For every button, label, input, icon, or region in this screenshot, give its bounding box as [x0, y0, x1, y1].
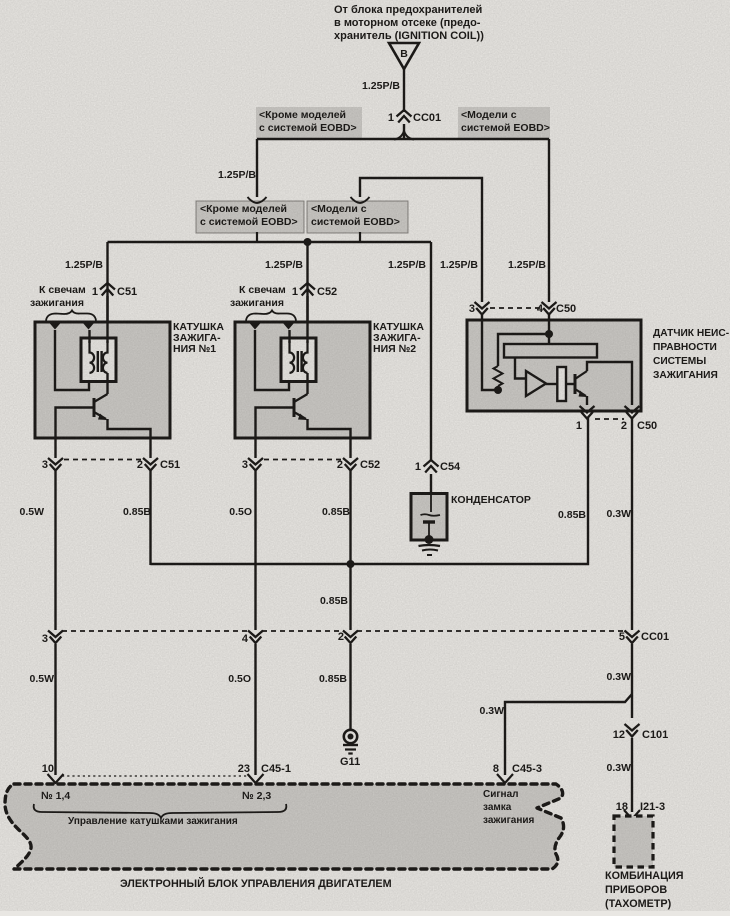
wire 0.85B coil1 ground [149, 471, 151, 565]
wire: bar to comparator input [515, 358, 526, 379]
wire: CC01 to split [403, 124, 405, 139]
wire: top split rail [257, 138, 549, 140]
transistor Q2 (in coil) [294, 394, 308, 420]
wire 0.5O coil2 base control [254, 471, 256, 630]
wire: emitter to pin2 exit coil1 [108, 419, 151, 438]
junction at C52 feed [304, 238, 312, 246]
connector C52 row (pins 3,2) [248, 458, 358, 471]
connector C52 pin 1 [292, 283, 337, 298]
fuse B [389, 43, 419, 69]
wire: pin4 to resistor top [498, 334, 549, 366]
wire: emitter to pin1 [586, 396, 588, 405]
wire: fuse to CC01 [403, 69, 405, 112]
connector C51 row (pins 3,2) [48, 458, 158, 471]
bar resistor in sensor [504, 344, 597, 358]
wire: rail to capacitor C54 [430, 242, 432, 460]
connector C51 pin 1 [92, 283, 137, 298]
wire 0.5O to ECU pin23 [254, 644, 256, 775]
connector CC01 pin 1 (top) [388, 110, 441, 124]
wire 0.5W to ECU pin10 [54, 644, 56, 775]
title: from fuse box note [334, 4, 484, 42]
wire: coil2 pin2 to row [349, 438, 351, 458]
wire behind right label box [359, 232, 361, 243]
ECU pin 23 entry [248, 774, 264, 783]
wire: rail to coil1 pin1 [106, 242, 108, 322]
wire: pin1 feed to primary coil2 [306, 296, 308, 343]
brace to spark arrows coil1 [46, 311, 96, 321]
ECU block (engine control unit) [5, 784, 564, 869]
wire: spark1 to secondary low coil2 [255, 330, 289, 390]
ignition coil #2 box [235, 322, 370, 438]
wire: spark2 to secondary high coil2 [288, 330, 290, 343]
connector C54 pin 1 [415, 460, 461, 473]
wire: spark2 to secondary high coil1 [88, 330, 90, 343]
wire: pin4 into sensor [548, 315, 550, 344]
wire: primary bottom to collector coil2 [306, 373, 308, 394]
connector C50 row 2 (pins 1,2) [580, 406, 640, 419]
transistor Q1 (in coil) [94, 394, 108, 420]
wire 0.5W coil1 base control [54, 471, 56, 630]
transistor in sensor [575, 371, 587, 397]
label box: except EOBD (row 2) [196, 201, 304, 233]
ECU pin 8 entry (C45-3) [497, 774, 513, 783]
wire 0.3W branch to C45-3 [505, 694, 632, 775]
transformer T1 [81, 338, 116, 382]
split fillets [394, 131, 414, 140]
spark output arrows coil2 [249, 323, 295, 330]
capacitor (noise condenser) box [411, 494, 447, 541]
wire: C54 to capacitor box [430, 474, 432, 494]
ground G11 [340, 730, 360, 768]
ground under capacitor [419, 545, 441, 555]
wire sensor pin2 down [631, 417, 633, 630]
wire 0.85B coil2 ground [349, 471, 351, 630]
wire: right branch down to jog [548, 139, 550, 302]
wire 0.3W main down to C101 [631, 644, 633, 718]
wire: resistor bottom to junction [497, 386, 499, 390]
wire: pin1 feed to primary coil1 [106, 296, 108, 343]
capacitor ground junction [425, 535, 434, 544]
connector C45-1 row [62, 775, 248, 777]
wire 0.85B to ground G11 [349, 644, 351, 730]
wire: emitter to pin2 exit coil2 [308, 419, 351, 438]
label box: EOBD models (row 2) [307, 201, 408, 233]
capacitor internals [430, 494, 432, 513]
wire: EOBD jog rail [360, 178, 482, 302]
brace to spark arrows coil2 [246, 311, 296, 321]
tachometer box [614, 816, 653, 867]
wire: pin3 into sensor [482, 315, 498, 390]
wire: left branch (except EOBD) down [256, 139, 258, 197]
wire: coil1 pin3 to row [54, 438, 56, 458]
junction resistor/pin3 [494, 386, 502, 394]
wire: coil1 pin2 to row [149, 438, 151, 458]
distribution rail y=242 [108, 241, 432, 243]
comparator (op-amp) [526, 371, 546, 396]
wire: primary bottom to collector coil1 [106, 373, 108, 394]
ECU pin 10 entry [48, 774, 64, 783]
junction ground rail [347, 560, 355, 568]
wire: coil2 pin3 to row [254, 438, 256, 458]
connector C50 row 1 (pins 3,4) [475, 302, 557, 315]
connector C101 pin 12 [613, 724, 669, 741]
ground rail y=564 [151, 417, 589, 564]
transformer T2 [281, 338, 316, 382]
wire C101 to tach [631, 738, 633, 812]
wire: capacitor to transistor base [566, 383, 574, 385]
wire: collector up and over to pin2 [587, 362, 632, 405]
connector CC01 row [62, 630, 249, 632]
wire: base to pin3 exit coil1 [56, 408, 95, 439]
capacitor element in sensor [557, 367, 566, 401]
wire behind left label box [256, 232, 258, 243]
wire: rail to coil2 pin1 [306, 242, 308, 322]
label box: EOBD models (row 1) [458, 107, 550, 139]
ignition coil #1 box [35, 322, 170, 438]
wire: base to pin3 exit coil2 [256, 408, 295, 439]
resistor (zigzag) in sensor [494, 366, 503, 386]
hook into label box row2 right [351, 197, 361, 203]
label box: except EOBD (row 1) [256, 107, 362, 139]
junction pin4 branch [545, 330, 553, 338]
hook into label box row2 left [248, 197, 258, 203]
wire: comparator out to capacitor [546, 383, 557, 385]
ignition failure sensor box [467, 320, 641, 411]
brace: coil control [34, 804, 287, 818]
spark output arrows coil1 [49, 323, 95, 330]
connector I21-3 pin 18 [624, 810, 640, 819]
wire: spark1 to secondary low coil1 [55, 330, 89, 390]
